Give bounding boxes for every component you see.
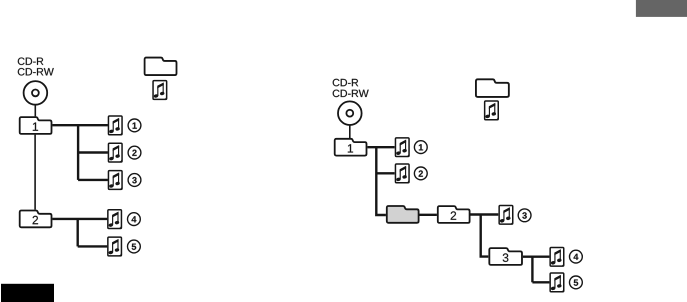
right music file 2	[395, 164, 409, 183]
right shaded folder (no name)	[387, 206, 419, 223]
left music file 3	[108, 171, 122, 190]
wire: right folder 1 to files 1-2 and down to shaded folder	[368, 147, 395, 215]
right folder 3	[489, 248, 522, 265]
wire: shaded folder to folder 2	[419, 214, 437, 216]
left music file 1	[108, 116, 122, 135]
gray page-corner tab (top right)	[636, 0, 687, 17]
left circled number 2	[128, 146, 141, 159]
left circled number 1	[128, 119, 141, 132]
wire: left disc to folder 1	[34, 105, 36, 117]
left folder 1	[20, 117, 52, 134]
wire: right folder 3 to files 4-5 (trunk and branches)	[523, 257, 550, 283]
right folder 1	[335, 139, 367, 156]
right music file 3	[499, 205, 513, 224]
wire: left folder 1 bottom to folder 2 top	[34, 135, 36, 210]
left: disc icon	[24, 81, 48, 105]
right folder 2	[438, 206, 470, 223]
right legend music file icon	[485, 101, 499, 120]
left music file 5	[108, 237, 122, 256]
right circled number 1	[414, 141, 427, 154]
right circled number 4	[570, 250, 583, 263]
wire: left folder 1 to files 1-3 (trunk and branches)	[52, 125, 108, 180]
right music file 5	[550, 273, 564, 292]
wire: right folder 2 to file 3 and down to folder 3	[470, 215, 498, 257]
left circled number 4	[127, 213, 140, 226]
black page label block (bottom left)	[1, 284, 54, 302]
left: CD-R / CD-RW label	[18, 58, 54, 76]
left legend folder icon	[145, 58, 177, 76]
wire: left folder 2 to files 4-5 (trunk and branches)	[52, 219, 107, 247]
left circled number 5	[127, 240, 140, 253]
left music file 4	[108, 210, 122, 229]
wire: right disc to folder 1	[349, 125, 351, 138]
right: disc icon	[338, 101, 362, 125]
left legend music file icon	[153, 81, 167, 100]
right legend folder icon	[476, 79, 509, 97]
right music file 1	[395, 138, 409, 157]
right: CD-R / CD-RW label	[333, 79, 369, 97]
right circled number 5	[570, 276, 583, 289]
right circled number 2	[414, 167, 427, 180]
left music file 2	[108, 143, 122, 162]
left circled number 3	[128, 174, 141, 187]
right circled number 3	[518, 209, 531, 222]
left folder 2	[20, 211, 52, 228]
right music file 4	[550, 247, 564, 266]
